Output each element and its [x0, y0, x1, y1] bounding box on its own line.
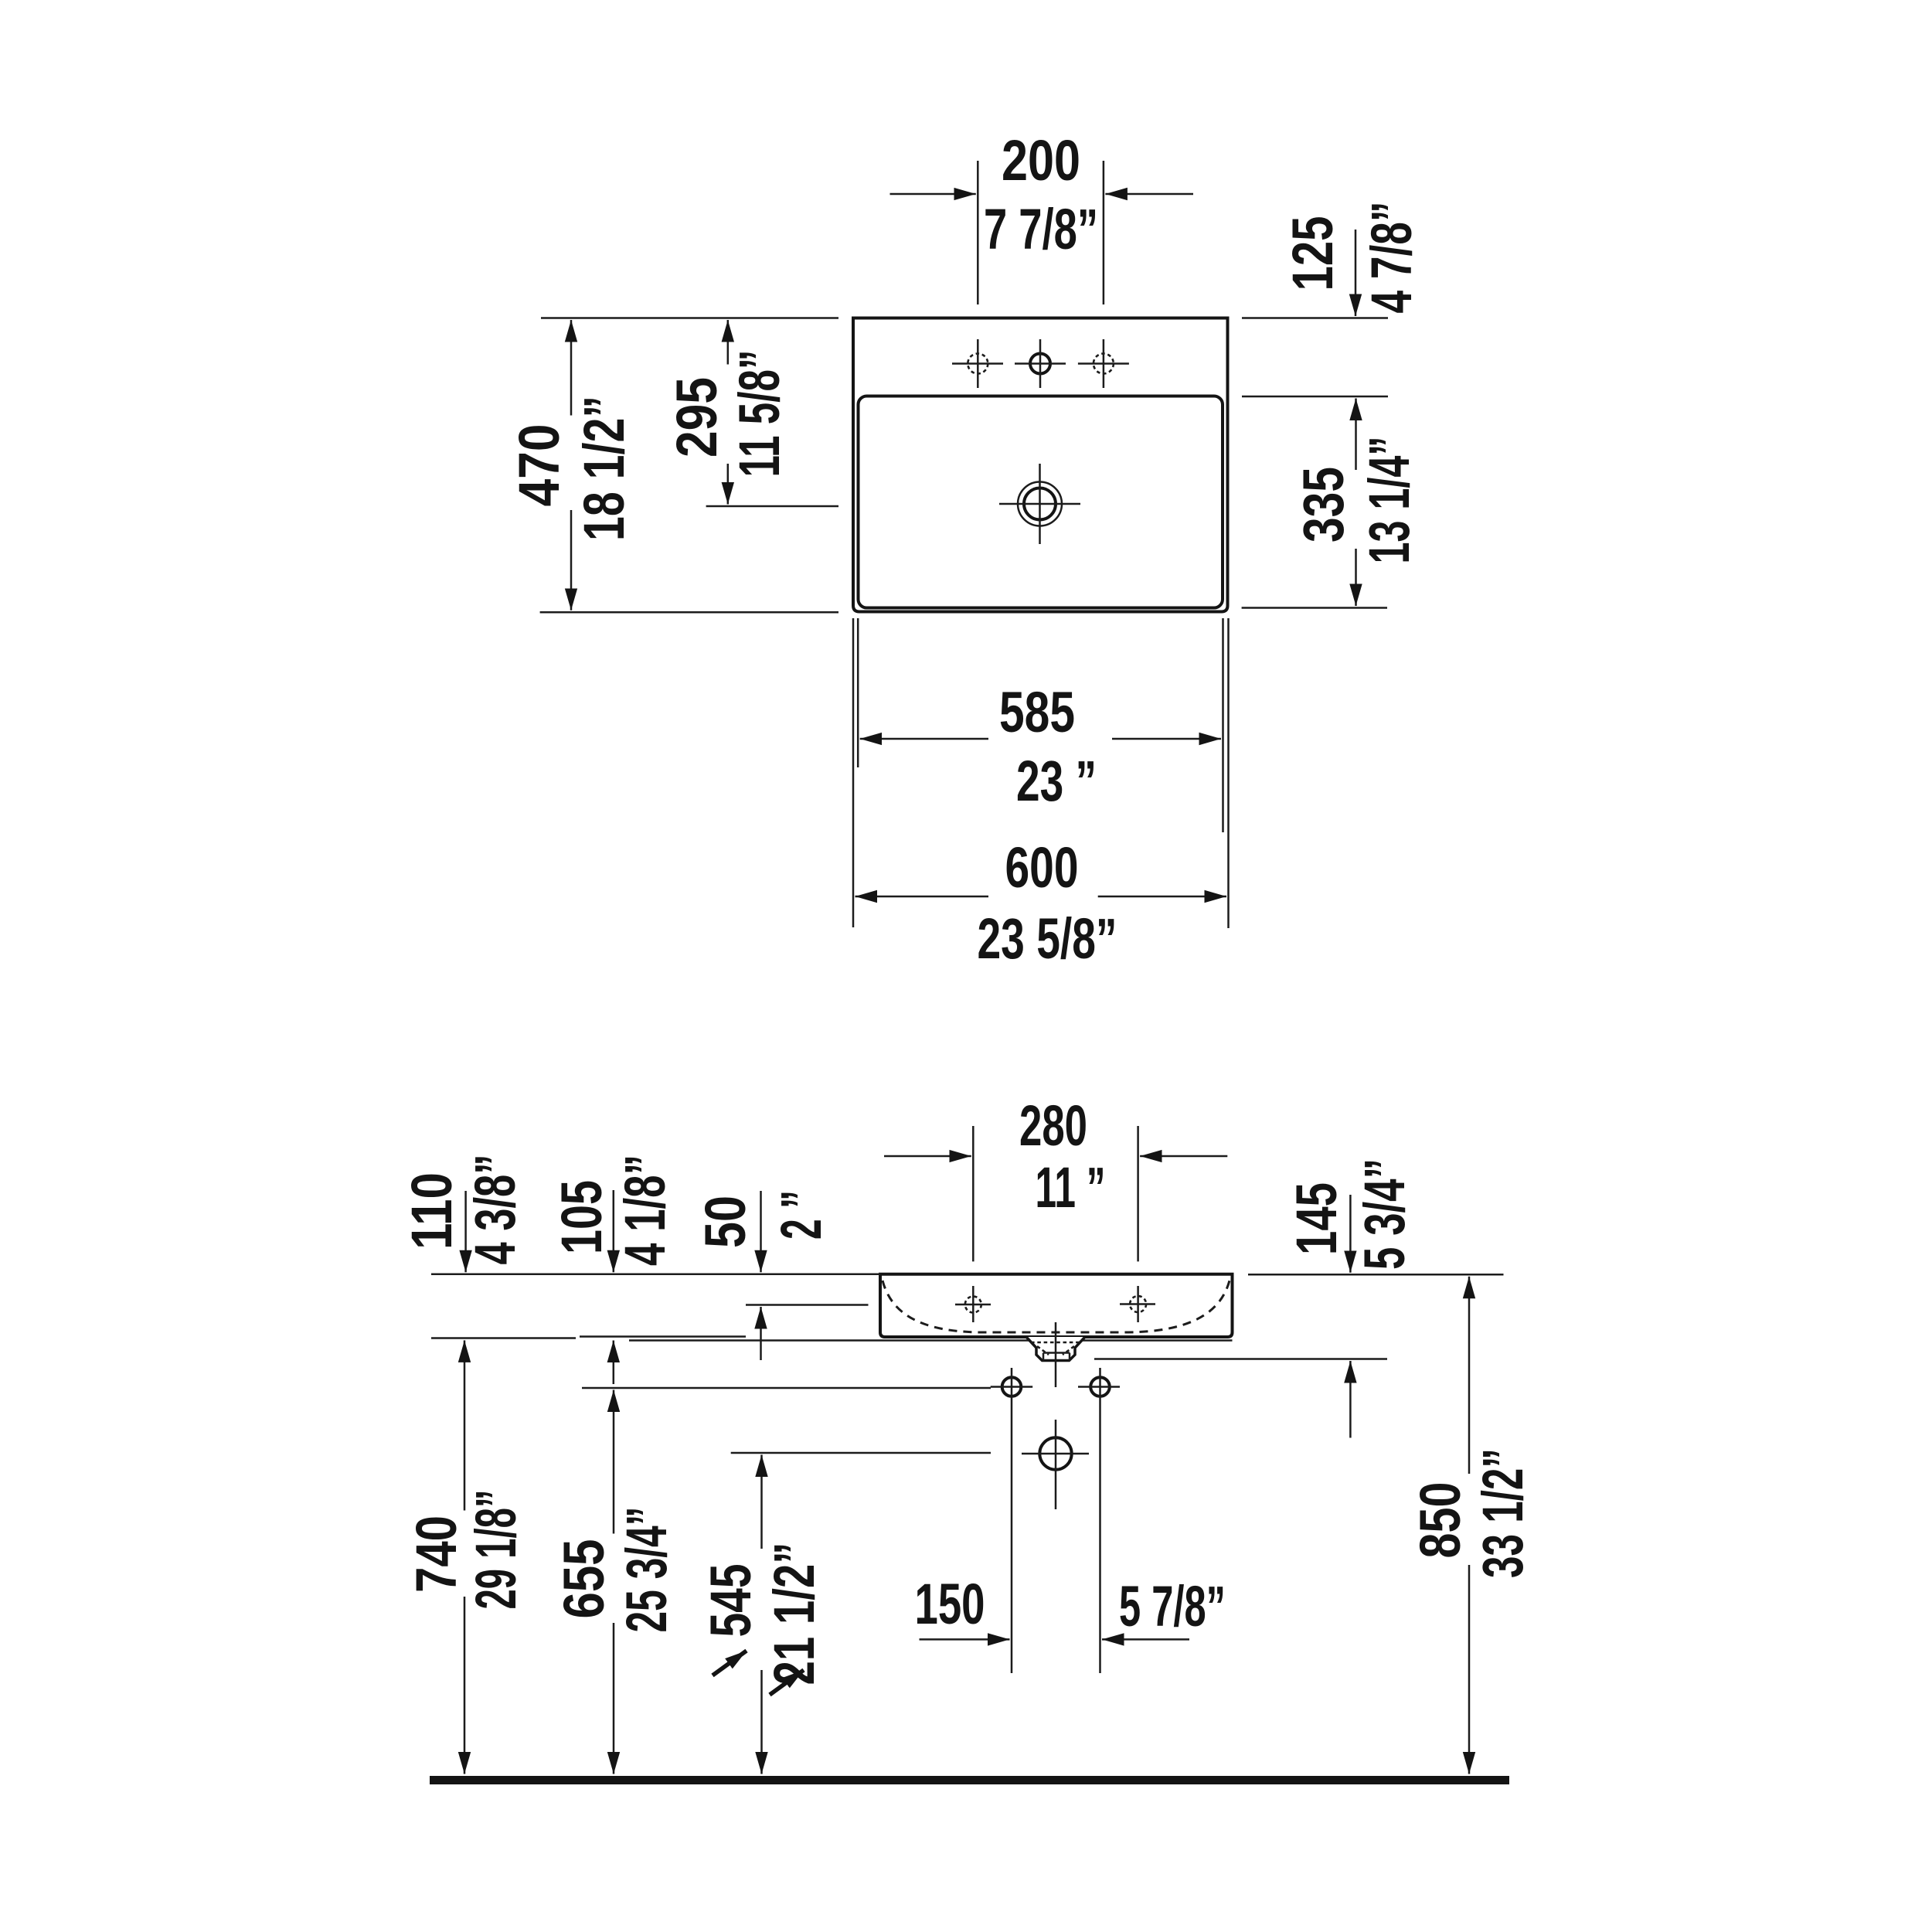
svg-text:545: 545	[699, 1564, 763, 1638]
svg-text:5 7/8”: 5 7/8”	[1119, 1574, 1226, 1638]
svg-text:4 1/8”: 4 1/8”	[613, 1155, 677, 1266]
svg-text:18 1/2”: 18 1/2”	[572, 396, 636, 541]
svg-text:13 1/4”: 13 1/4”	[1357, 437, 1421, 564]
svg-text:850: 850	[1408, 1482, 1472, 1559]
svg-text:21 1/2”: 21 1/2”	[762, 1543, 826, 1685]
svg-text:110: 110	[400, 1172, 464, 1250]
svg-text:150: 150	[915, 1572, 985, 1636]
svg-text:4 3/8”: 4 3/8”	[463, 1155, 527, 1265]
svg-text:11 ”: 11 ”	[1036, 1155, 1106, 1219]
svg-text:105: 105	[549, 1180, 614, 1254]
svg-text:600: 600	[1005, 835, 1079, 900]
svg-text:280: 280	[1019, 1094, 1087, 1158]
svg-text:23 5/8”: 23 5/8”	[978, 906, 1117, 971]
svg-text:200: 200	[1002, 128, 1080, 192]
svg-text:655: 655	[552, 1539, 616, 1619]
svg-text:335: 335	[1291, 467, 1355, 543]
svg-text:2 ”: 2 ”	[769, 1190, 833, 1240]
svg-text:50: 50	[693, 1196, 757, 1248]
svg-text:585: 585	[999, 680, 1075, 744]
svg-text:7 7/8”: 7 7/8”	[984, 197, 1098, 261]
svg-text:29 1/8”: 29 1/8”	[464, 1490, 528, 1610]
svg-text:33 1/2”: 33 1/2”	[1471, 1448, 1535, 1578]
svg-text:11 5/8”: 11 5/8”	[727, 350, 791, 478]
svg-text:5 3/4”: 5 3/4”	[1352, 1158, 1417, 1270]
svg-text:125: 125	[1281, 216, 1345, 291]
svg-text:470: 470	[507, 424, 571, 507]
svg-text:4 7/8”: 4 7/8”	[1359, 202, 1423, 314]
svg-text:145: 145	[1284, 1182, 1349, 1255]
svg-text:295: 295	[665, 377, 729, 457]
svg-text:740: 740	[404, 1515, 468, 1593]
svg-text:25 3/4”: 25 3/4”	[614, 1507, 679, 1633]
svg-text:23 ”: 23 ”	[1016, 749, 1097, 813]
